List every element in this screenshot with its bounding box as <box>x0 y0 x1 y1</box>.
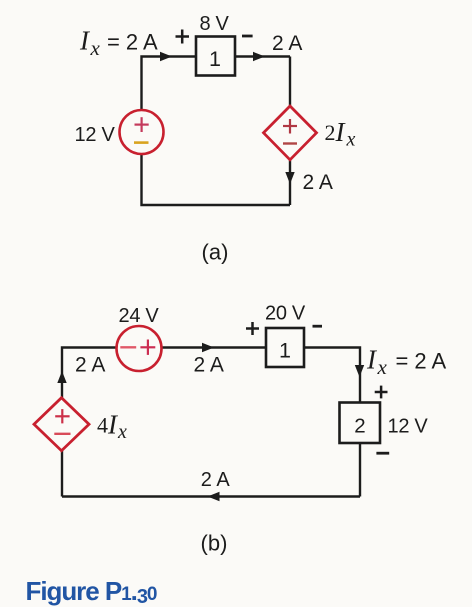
current arrow up on left wire (b) <box>57 371 66 383</box>
polarity + above box2 (b) <box>375 386 388 399</box>
svg-text:2 A: 2 A <box>75 354 105 377</box>
wire: bottom segment (a) <box>142 154 291 205</box>
wire: top-left corner to circle (b) <box>62 348 117 373</box>
svg-text:2: 2 <box>354 415 365 438</box>
plus inside 12V source (a) <box>135 117 149 132</box>
wire: right segment top (a) <box>289 57 291 108</box>
polarity - below box2 (b) <box>376 452 389 455</box>
box element 1 (b) <box>266 328 304 367</box>
polarity - right of box1 (b) <box>313 325 323 328</box>
minus inside 12V source (a) <box>134 141 149 144</box>
current arrow right of box (a) <box>253 52 265 61</box>
wire: bottom segment (b) <box>62 495 360 497</box>
voltage source 12 V circle (a) <box>120 110 164 154</box>
wire: bottom-left corner up to diamond (b) <box>61 451 63 497</box>
current arrow down on right wire (b) <box>355 365 364 377</box>
current arrow right on top wire (b) <box>202 343 214 352</box>
wire: top-left segment of loop (a) <box>142 57 197 111</box>
svg-text:2 A: 2 A <box>272 32 302 55</box>
voltage source 24 V circle (b) <box>117 326 162 371</box>
wire: box2 down to bottom-right corner (b) <box>359 443 361 497</box>
wire: circle to box1 (b) <box>162 346 267 348</box>
minus inside 24V source (b) <box>120 346 136 348</box>
polarity - right of box (a) <box>242 35 253 38</box>
dependent source diamond 4Ix (b) <box>34 398 89 451</box>
wire: diamond top up (b) <box>61 372 63 398</box>
svg-text:2 A: 2 A <box>303 171 333 194</box>
wire: right segment below diamond (a) <box>289 159 291 205</box>
svg-text:12 V: 12 V <box>75 124 116 146</box>
svg-text:12 V: 12 V <box>388 416 429 438</box>
svg-text:24 V: 24 V <box>119 305 160 327</box>
minus inside diamond (a) <box>283 142 297 144</box>
wire: top segment right of box (a) <box>235 55 290 57</box>
svg-text:2 A: 2 A <box>194 354 224 377</box>
svg-text:2 A: 2 A <box>201 469 231 491</box>
plus inside diamond (b) <box>55 409 69 423</box>
wire: box1 to top-right corner down to box2 (b) <box>304 348 360 403</box>
current arrow on top wire left (a) <box>160 52 172 61</box>
box element 1 (a) <box>196 37 235 76</box>
plus inside 24V source (b) <box>140 340 155 355</box>
svg-text:20 V: 20 V <box>265 303 306 325</box>
polarity + left of box (a) <box>176 30 190 44</box>
plus inside diamond (a) <box>283 119 297 134</box>
box element 2 (b) <box>340 403 381 444</box>
svg-text:(b): (b) <box>201 531 228 556</box>
dependent source diamond 2Ix (a) <box>264 106 317 160</box>
polarity + left of box1 (b) <box>246 322 259 335</box>
current arrow down on right wire (a) <box>285 172 294 184</box>
svg-text:8 V: 8 V <box>199 13 229 35</box>
current arrow left on bottom wire (b) <box>208 492 220 501</box>
svg-text:1: 1 <box>279 339 291 363</box>
svg-text:1: 1 <box>209 47 221 71</box>
minus inside diamond (b) <box>54 433 70 435</box>
svg-text:(a): (a) <box>202 240 229 265</box>
